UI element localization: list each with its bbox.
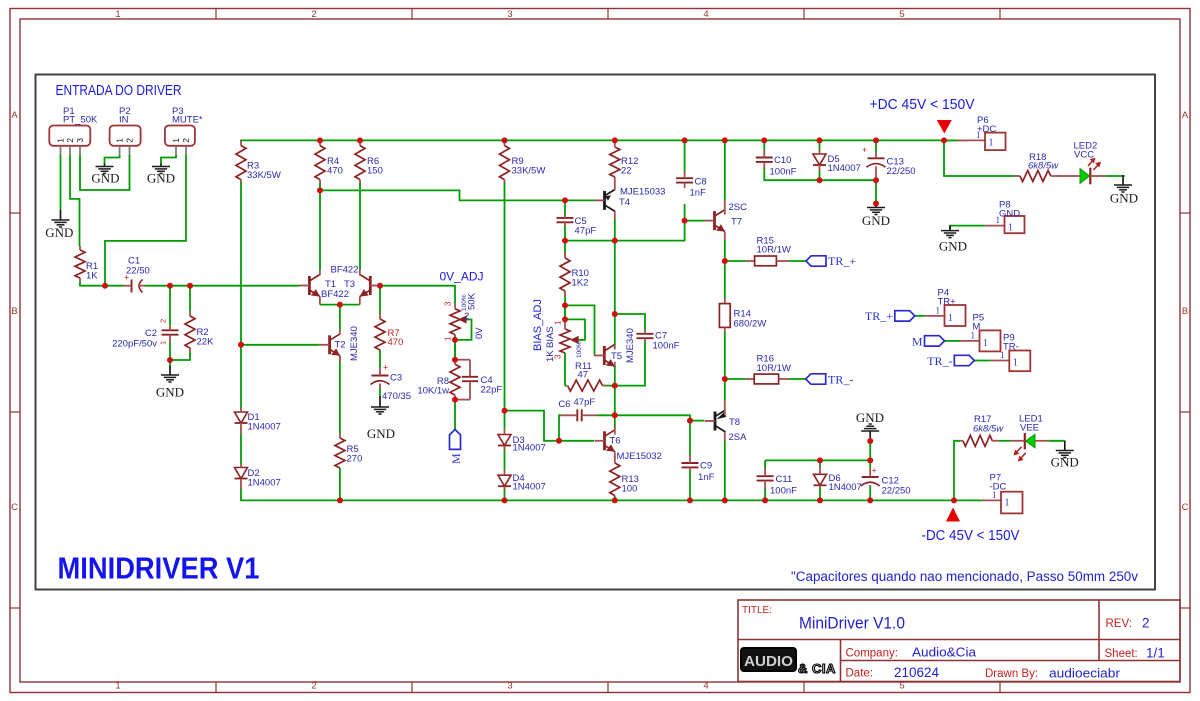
svg-text:3: 3 [75,138,85,143]
svg-text:2: 2 [181,138,191,143]
svg-text:150: 150 [367,166,383,177]
svg-text:1/1: 1/1 [1146,646,1165,661]
svg-text:Date:: Date: [846,668,874,680]
svg-text:470: 470 [388,337,404,348]
svg-text:T5: T5 [611,351,622,362]
svg-text:4: 4 [703,9,708,20]
svg-text:Company:: Company: [846,648,898,660]
svg-text:"Capacitores quando nao mencio: "Capacitores quando nao mencionado, Pass… [791,569,1138,584]
svg-text:A: A [1182,110,1189,121]
svg-text:1: 1 [1005,497,1010,508]
svg-text:47: 47 [578,370,589,381]
svg-text:1K: 1K [86,271,98,282]
svg-text:22pF: 22pF [481,385,503,396]
svg-text:2: 2 [125,138,135,143]
svg-text:GND: GND [862,213,890,228]
svg-text:BF422: BF422 [321,289,349,300]
svg-text:T8: T8 [729,417,740,428]
svg-text:T4: T4 [619,197,630,208]
svg-text:C2: C2 [145,328,157,339]
svg-text:5: 5 [899,9,904,20]
svg-text:MJE340: MJE340 [625,328,636,363]
svg-text:680/2W: 680/2W [734,319,767,330]
svg-text:MJE15032: MJE15032 [617,451,662,462]
svg-text:+: + [383,363,388,373]
svg-text:1K2: 1K2 [572,278,589,289]
svg-text:GND: GND [156,385,184,400]
svg-text:TR_+: TR_+ [865,309,893,323]
svg-text:2: 2 [311,681,316,692]
svg-text:1N4007: 1N4007 [513,482,546,493]
svg-text:+: + [862,145,867,155]
svg-text:2: 2 [1142,616,1150,631]
svg-text:1N4007: 1N4007 [513,443,546,454]
svg-text:AUDIO: AUDIO [744,654,793,670]
svg-text:T7: T7 [731,217,742,228]
svg-text:1: 1 [115,9,120,20]
svg-text:3: 3 [444,301,453,306]
svg-text:2SC: 2SC [729,202,748,213]
svg-text:22/250: 22/250 [882,486,911,497]
svg-text:A: A [11,110,18,121]
svg-text:M: M [912,335,923,349]
svg-text:T6: T6 [610,436,621,447]
svg-text:Drawn By:: Drawn By: [985,668,1038,680]
svg-text:33K/5W: 33K/5W [512,166,546,177]
svg-text:1: 1 [56,138,66,143]
svg-text:22K: 22K [197,337,215,348]
svg-text:6k8/5w: 6k8/5w [1028,161,1059,172]
svg-text:22/50: 22/50 [126,266,150,277]
svg-text:2: 2 [464,311,469,322]
svg-text:GND: GND [1110,191,1138,206]
svg-text:10R/1W: 10R/1W [757,245,791,256]
svg-text:2: 2 [311,9,316,20]
svg-text:GND: GND [147,171,175,186]
svg-text:100: 100 [622,484,638,495]
svg-text:BIAS_ADJ: BIAS_ADJ [532,299,544,351]
svg-text:220pF/50v: 220pF/50v [112,339,157,350]
svg-text:1: 1 [992,490,997,500]
svg-text:2: 2 [159,319,168,323]
svg-text:VEE: VEE [1020,423,1039,434]
svg-text:2SA: 2SA [729,432,748,443]
svg-text:+DC 45V < 150V: +DC 45V < 150V [870,96,975,113]
svg-text:C: C [11,502,18,513]
svg-text:1: 1 [936,305,941,315]
svg-text:ENTRADA DO DRIVER: ENTRADA DO DRIVER [56,82,182,99]
svg-text:1: 1 [989,137,994,148]
svg-text:M: M [449,453,463,464]
svg-text:1: 1 [171,138,181,143]
svg-text:BF422: BF422 [331,265,359,276]
svg-text:C3: C3 [390,373,402,384]
svg-text:1: 1 [976,130,981,140]
svg-text:GND: GND [367,426,395,441]
svg-text:1K: 1K [545,350,556,362]
svg-text:Audio&Cia: Audio&Cia [912,645,977,660]
svg-text:MINIDRIVER V1: MINIDRIVER V1 [58,551,260,586]
svg-text:TITLE:: TITLE: [742,605,772,616]
svg-text:C: C [1182,502,1189,513]
svg-text:47pF: 47pF [574,397,596,408]
svg-text:22/250: 22/250 [887,166,916,177]
svg-text:GND: GND [45,225,73,240]
svg-text:3: 3 [507,9,512,20]
svg-text:-DC 45V < 150V: -DC 45V < 150V [922,527,1020,544]
svg-text:33K/5W: 33K/5W [247,170,281,181]
svg-text:1: 1 [554,320,563,325]
svg-text:1N4007: 1N4007 [248,478,281,489]
svg-text:1: 1 [115,138,125,143]
svg-text:B: B [1182,306,1188,317]
svg-text:1: 1 [1000,350,1005,360]
svg-text:0V: 0V [474,327,485,339]
svg-text:1N4007: 1N4007 [828,163,861,174]
svg-text:100nF: 100nF [770,486,797,497]
svg-text:270: 270 [347,454,363,465]
svg-text:GND: GND [1051,455,1079,470]
svg-text:1N4007: 1N4007 [829,482,862,493]
svg-text:1N4007: 1N4007 [248,422,281,433]
svg-text:1: 1 [1008,223,1013,234]
svg-text:3: 3 [507,681,512,692]
svg-text:4: 4 [703,681,708,692]
svg-text:1: 1 [971,330,976,340]
svg-text:100%: 100% [576,341,583,358]
svg-text:1: 1 [983,338,988,349]
svg-text:C10: C10 [774,155,791,166]
svg-text:audioeciabr: audioeciabr [1049,666,1121,681]
svg-text:1nF: 1nF [698,472,715,483]
svg-text:+: + [872,466,877,476]
svg-text:1: 1 [115,681,120,692]
svg-text:0V_ADJ: 0V_ADJ [440,272,484,284]
svg-text:B: B [11,306,17,317]
svg-text:1: 1 [159,341,168,345]
svg-text:REV:: REV: [1106,618,1132,630]
svg-text:C11: C11 [776,474,793,485]
svg-text:MUTE*: MUTE* [172,115,203,126]
svg-text:10K/1w: 10K/1w [417,386,449,397]
svg-text:IN: IN [119,115,129,126]
svg-text:6k8/5w: 6k8/5w [973,424,1004,435]
svg-text:470/35: 470/35 [382,391,411,402]
svg-text:MJE340: MJE340 [349,326,360,361]
svg-text:GND: GND [999,208,1020,219]
svg-text:BIAS: BIAS [545,326,556,348]
svg-text:210624: 210624 [894,665,939,680]
svg-text:470: 470 [327,166,343,177]
svg-text:100nF: 100nF [653,341,680,352]
svg-text:& CIA: & CIA [798,661,836,676]
svg-text:Sheet:: Sheet: [1105,648,1138,660]
svg-text:MiniDriver V1.0: MiniDriver V1.0 [799,613,905,632]
svg-text:22: 22 [621,166,632,177]
svg-text:2: 2 [65,138,75,143]
svg-text:C6: C6 [558,399,570,410]
svg-text:10R/1W: 10R/1W [757,363,791,374]
svg-text:TR+: TR+ [938,296,957,307]
svg-text:VCC: VCC [1074,150,1094,161]
svg-text:PT_50K: PT_50K [63,115,98,126]
svg-text:GND: GND [856,410,884,425]
svg-text:C9: C9 [700,461,712,472]
svg-text:100nF: 100nF [770,167,797,178]
svg-text:TR_+: TR_+ [828,254,856,268]
svg-text:TR_-: TR_- [927,354,952,368]
svg-text:GND: GND [939,239,967,254]
svg-text:47pF: 47pF [575,226,597,237]
svg-text:TR_-: TR_- [828,373,853,387]
svg-text:1nF: 1nF [690,188,707,199]
svg-text:1: 1 [996,215,1001,225]
svg-text:1: 1 [1013,358,1018,369]
svg-text:T2: T2 [335,340,346,351]
svg-text:1: 1 [444,336,453,341]
svg-text:C8: C8 [695,177,707,188]
svg-text:GND: GND [91,171,119,186]
svg-text:TR-: TR- [1003,341,1019,352]
svg-text:1: 1 [948,313,953,324]
svg-text:50K: 50K [467,292,478,310]
